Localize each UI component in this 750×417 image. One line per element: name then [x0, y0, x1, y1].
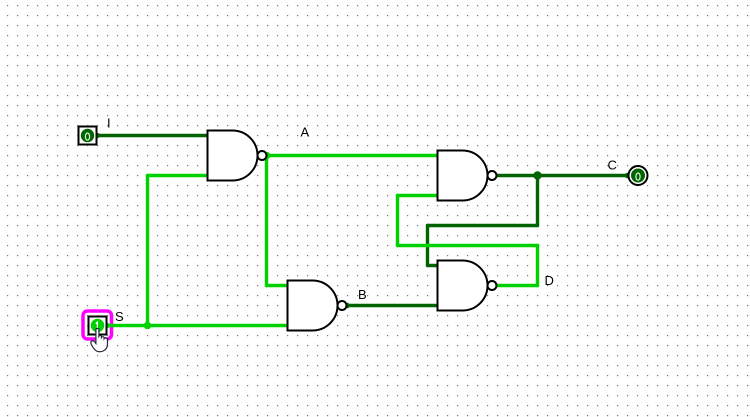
wire node A to U3 top input — [267, 284, 289, 287]
wire node A vertical drop — [265, 156, 268, 286]
selection box around pin S — [83, 311, 112, 339]
NAND gate U3 — [288, 280, 338, 330]
wire U1 bottom input from node S branch — [148, 174, 209, 177]
wire end cap at pin C — [625, 173, 631, 179]
wire S horizontal to U3 bottom input — [107, 324, 289, 327]
wire B from U3 output to U4 bottom input — [347, 304, 439, 307]
output pin C — [629, 166, 648, 185]
wire U2 output to pin C — [497, 174, 628, 177]
wire into U2 bottom input — [398, 194, 439, 197]
svg-text:A: A — [301, 125, 310, 140]
wire end cap at U3 output — [344, 303, 350, 309]
junction node A — [263, 152, 271, 160]
svg-text:B: B — [358, 287, 367, 302]
svg-text:I: I — [107, 116, 111, 131]
wire C feedback vertical down — [536, 176, 539, 226]
svg-text:C: C — [608, 158, 617, 173]
hand cursor — [91, 328, 108, 351]
svg-text:S: S — [115, 309, 124, 324]
wire D feedback vertical up — [396, 196, 399, 246]
junction node S branch — [144, 322, 152, 330]
wire D vertical up — [536, 246, 539, 286]
input pin I — [79, 127, 97, 145]
wire vertical S branch — [146, 176, 149, 326]
node A wire horizontal to U2 top input — [267, 154, 439, 157]
wire end cap at pin I — [94, 133, 100, 139]
wire I to U1 top input — [97, 134, 209, 137]
wire D feedback horizontal left — [398, 244, 538, 247]
wire C feedback vertical to U4 level — [426, 226, 429, 266]
wire end cap at pin S — [104, 323, 110, 329]
wire into U4 top input — [428, 264, 439, 267]
junction node C feedback — [533, 171, 541, 179]
NAND gate U1 — [208, 131, 258, 181]
NAND gate U4 — [438, 261, 488, 311]
input pin S — [89, 317, 107, 335]
NAND gate U2 — [438, 151, 488, 201]
wire C feedback horizontal left — [428, 224, 538, 227]
wire D from U4 output — [497, 284, 538, 287]
svg-text:D: D — [545, 273, 554, 288]
